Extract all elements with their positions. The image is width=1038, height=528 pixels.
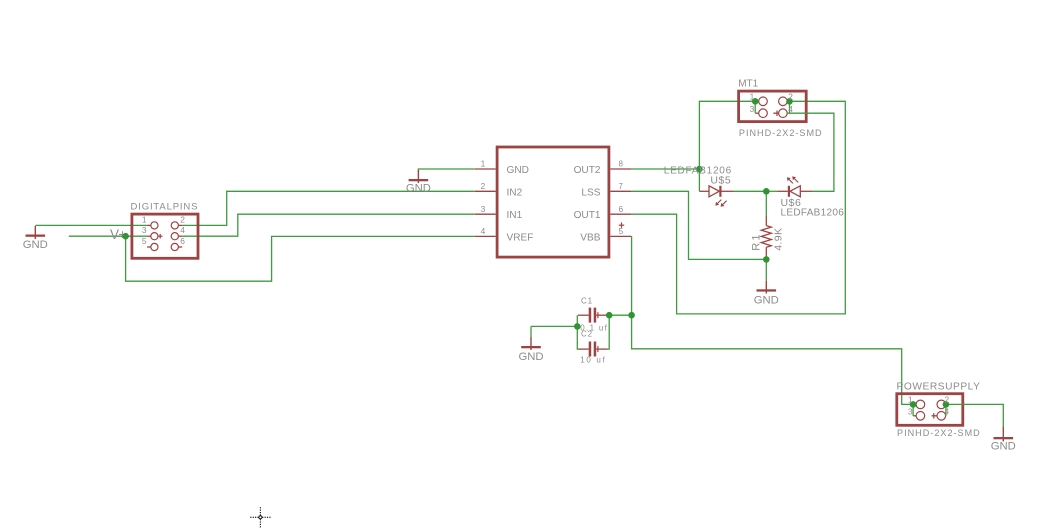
wire LSS to R1 bottom — [631, 191, 766, 259]
svg-text:1: 1 — [750, 91, 755, 101]
LED U$5 — [699, 186, 733, 207]
svg-text:OUT2: OUT2 — [574, 165, 601, 176]
pin 3 IN1 stub — [475, 213, 496, 215]
svg-text:6: 6 — [180, 236, 185, 246]
capacitor C2 — [578, 329, 608, 364]
ground GND3 (below R1) — [754, 281, 779, 307]
svg-text:4: 4 — [788, 104, 793, 114]
wire MT1 pin2 to pin4 — [789, 101, 791, 113]
junction MT1 pin2 — [786, 98, 793, 105]
wire MT1 pin4 to LED U$6 — [787, 113, 834, 191]
wire DIGITALPINS pin4 to IN1 — [182, 214, 475, 236]
svg-text:2: 2 — [481, 181, 486, 191]
svg-text:4.9K: 4.9K — [772, 228, 784, 251]
resistor R1 — [761, 215, 771, 256]
pin 4 VREF stub — [475, 235, 496, 237]
svg-text:8: 8 — [619, 160, 624, 169]
svg-text:LEDFAB1206: LEDFAB1206 — [781, 208, 845, 219]
wire GND1 to DIGITALPINS pin1 — [35, 224, 147, 226]
wire POWERSUPPLY pin1 to pin3 — [912, 404, 914, 415]
pin 7 LSS stub — [610, 190, 631, 192]
pin 1 GND stub — [475, 168, 496, 170]
wire junction down to R1 — [765, 191, 767, 215]
wire OUT1 to MT1 pin2 — [631, 101, 845, 314]
wire R1 to GND — [765, 256, 767, 280]
svg-text:GND: GND — [507, 165, 529, 176]
junction POWERSUPPLY pin1 — [910, 401, 917, 408]
node V+ wire to DIGITALPINS pin3 — [69, 235, 147, 237]
svg-text:IN2: IN2 — [507, 187, 523, 198]
LED U$6 — [778, 176, 813, 196]
svg-text:4: 4 — [180, 225, 185, 235]
pin 5 VBB stub — [610, 235, 631, 237]
svg-text:C1: C1 — [581, 296, 593, 305]
svg-text:4: 4 — [945, 406, 950, 416]
wire VBB to POWERSUPPLY pin1 — [632, 236, 914, 404]
connector POWERSUPPLY — [897, 381, 981, 425]
ground GND4 (left of capacitors) — [518, 337, 543, 363]
svg-text:3: 3 — [142, 225, 147, 235]
svg-text:DIGITALPINS: DIGITALPINS — [131, 202, 199, 213]
svg-text:2: 2 — [945, 395, 950, 405]
wire junction to U$6 — [766, 190, 777, 192]
connector DIGITALPINS — [131, 202, 199, 259]
wire U$5 cathode to junction — [733, 190, 766, 192]
connector MT1 — [738, 78, 806, 121]
junction LED row — [763, 188, 770, 195]
svg-text:POWERSUPPLY: POWERSUPPLY — [897, 381, 981, 392]
svg-text:3: 3 — [481, 204, 486, 214]
svg-text:R1: R1 — [751, 232, 763, 250]
ground GND5 (bottom right) — [991, 427, 1016, 453]
junction C left — [574, 323, 581, 330]
svg-text:VREF: VREF — [507, 232, 534, 243]
svg-text:4: 4 — [481, 226, 486, 236]
svg-text:GND: GND — [406, 182, 431, 194]
wire MT1 pin1 down to LED U$5 — [699, 101, 755, 191]
ground GND2 (at IC pin 1) — [406, 169, 475, 194]
svg-text:3: 3 — [750, 104, 755, 114]
svg-text:GND: GND — [754, 294, 779, 306]
junction MT1 pin1 — [752, 98, 759, 105]
ground GND1 (far left) — [23, 226, 48, 251]
svg-text:LSS: LSS — [581, 187, 600, 198]
svg-text:1: 1 — [142, 215, 147, 225]
svg-text:6: 6 — [619, 204, 624, 214]
svg-text:10 uf: 10 uf — [580, 355, 606, 364]
svg-text:1: 1 — [481, 159, 486, 169]
svg-text:1: 1 — [908, 395, 913, 405]
svg-text:PINHD-2X2-SMD: PINHD-2X2-SMD — [739, 128, 823, 138]
svg-text:2: 2 — [788, 91, 793, 101]
junction POWERSUPPLY pin2 — [943, 401, 950, 408]
wire down to GND4 — [530, 326, 532, 337]
junction R1 bottom — [763, 256, 770, 263]
svg-text:PINHD-2X2-SMD: PINHD-2X2-SMD — [897, 428, 981, 438]
svg-text:MT1: MT1 — [738, 78, 758, 89]
svg-text:GND: GND — [991, 441, 1016, 453]
svg-text:2: 2 — [180, 215, 185, 225]
junction V+ — [122, 233, 129, 240]
svg-text:GND: GND — [23, 239, 48, 251]
pin 8 OUT2 stub — [610, 168, 631, 170]
svg-text:IN1: IN1 — [507, 210, 523, 221]
wire C1 right to VBB net — [608, 314, 632, 316]
origin cross marker — [250, 507, 270, 527]
junction OUT2/MT1/U$5 — [696, 166, 703, 173]
wire POWERSUPPLY pin2 to pin4 — [945, 404, 947, 415]
svg-text:OUT1: OUT1 — [574, 210, 601, 221]
svg-text:C2: C2 — [581, 329, 593, 338]
pin 2 IN2 stub — [475, 190, 496, 192]
svg-text:U$5: U$5 — [710, 175, 731, 187]
wire C2 right up to C1 — [608, 315, 610, 349]
svg-text:VBB: VBB — [580, 232, 600, 243]
wire V+ to VREF (pin 4 of IC) — [126, 236, 475, 281]
wire GND to C left — [531, 325, 577, 327]
pin 6 OUT1 stub — [610, 213, 631, 215]
junction VBB/C1 — [628, 312, 635, 319]
wire POWERSUPPLY pin2 to GND5 — [946, 404, 1003, 427]
wire OUT2 to junction — [631, 168, 699, 170]
svg-text:7: 7 — [619, 182, 624, 191]
op-amp/driver IC U1 box — [497, 147, 609, 257]
wire C1 left down to C2 left — [577, 315, 578, 349]
capacitor C1 — [578, 296, 608, 332]
svg-text:5: 5 — [142, 236, 147, 246]
wire MT1 pin1 to pin3 — [754, 101, 756, 113]
junction C1/C2 — [606, 312, 613, 319]
wire DIGITALPINS pin2 to IN2 — [182, 191, 475, 225]
svg-text:3: 3 — [908, 406, 913, 416]
svg-text:GND: GND — [518, 351, 543, 363]
